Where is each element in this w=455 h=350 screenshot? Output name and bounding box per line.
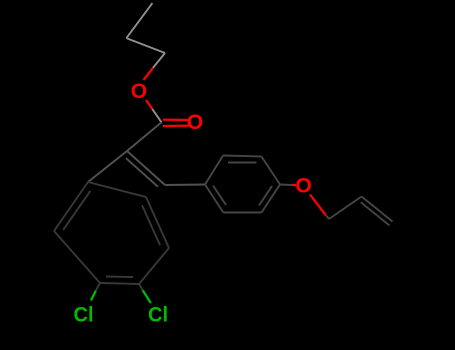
bond V4-Cl right gray part (139, 284, 143, 290)
bond ring-O3 red part (292, 184, 296, 186)
right ring edge TR-R (262, 157, 281, 185)
bond V5-Cl left green part (91, 291, 96, 301)
double bond CH=CH2 main line (362, 197, 393, 222)
svg-text:Cl: Cl (74, 303, 94, 327)
right ring inner aromatic line top (228, 162, 257, 164)
right ring edge BL-L (205, 185, 223, 213)
right ring edge R-BR (262, 185, 281, 213)
double bond C=O line 1 (163, 118, 189, 121)
bond O1-C(=O) red part (146, 100, 152, 109)
bond CH2-O1 gray part (153, 53, 165, 68)
left ring edge V4-V5 (100, 283, 139, 284)
bond carbonylC-C2 (127, 122, 162, 151)
right ring edge TL-TR (223, 156, 262, 157)
right ring edge BR-BL (223, 212, 261, 214)
bond O3-allyl CH2 gray part (326, 215, 329, 219)
right ring inner aromatic line right-bottom (259, 186, 272, 206)
left ring inner aromatic line V2-V3 (142, 205, 160, 245)
double bond CH=CH2 second line (361, 202, 390, 225)
right ring edge L-TL (205, 156, 223, 185)
left ring inner aromatic line V4-V5 (106, 276, 133, 279)
bond C2-left ring ipso V1 (88, 151, 127, 182)
bond CH2-O1 red part near O (144, 68, 153, 80)
double bond C=O line 2 (163, 124, 189, 127)
svg-text:O: O (131, 80, 147, 103)
bond O3-allyl CH2 red part (310, 195, 326, 215)
left ring inner aromatic line V6-V1 (63, 191, 90, 230)
bond V5-Cl left gray part (96, 283, 100, 291)
bond propyl CH3-CH2 (126, 3, 152, 38)
svg-text:O: O (187, 111, 203, 134)
bond propyl CH2-CH2 (126, 38, 165, 53)
right ring inner aromatic line left-bottom (213, 186, 226, 206)
bond V4-Cl right green part (143, 290, 151, 303)
bond ring-O3 gray part (280, 184, 292, 187)
bond C3-right ring ipso (165, 184, 205, 187)
bond O1-C(=O) gray part (152, 109, 161, 122)
left ring edge V2-V3 (146, 197, 169, 248)
svg-text:Cl: Cl (148, 303, 168, 327)
svg-text:O: O (295, 174, 311, 197)
left ring edge V5-V6 (54, 231, 100, 283)
left ring edge V6-V1 (54, 182, 88, 231)
double bond C2=C3 main line (127, 151, 165, 185)
double bond C2=C3 second line (126, 158, 158, 187)
bond allyl CH2-CH (329, 197, 362, 220)
left ring edge V1-V2 (88, 182, 146, 197)
left ring edge V3-V4 (139, 248, 169, 284)
